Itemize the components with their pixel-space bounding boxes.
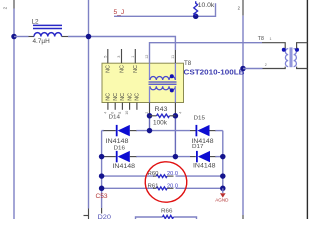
resistor R43 [157, 114, 170, 117]
pin lead L2 left [29, 36, 35, 38]
svg-text:2: 2 [3, 6, 8, 9]
wire diode row 2 [102, 156, 104, 158]
svg-text:12: 12 [145, 55, 149, 59]
svg-text:1: 1 [270, 37, 272, 41]
pin stub left bus bottom [101, 208, 103, 214]
svg-text:NC: NC [106, 65, 112, 73]
svg-text:D17: D17 [192, 144, 204, 150]
svg-text:L2: L2 [32, 19, 40, 26]
wire left bus [101, 131, 103, 208]
svg-text:4: 4 [178, 112, 182, 114]
junction left bus row 2 [99, 154, 105, 160]
svg-text:IN4148: IN4148 [113, 164, 136, 170]
svg-text:NC: NC [106, 93, 112, 101]
junction left bus R60 [99, 173, 105, 179]
junction R43 right [173, 113, 179, 119]
pin 5 stub [107, 49, 109, 63]
resistor R66 [163, 215, 174, 218]
svg-text:D20: D20 [98, 214, 112, 219]
junction mid row 2 [173, 154, 179, 160]
svg-text:NC: NC [113, 93, 119, 101]
pin stub left bus top [13, 0, 15, 9]
transformer core lines inside T8 [149, 81, 177, 83]
svg-text:100k: 100k [153, 120, 168, 127]
junction at L2 row left [11, 34, 17, 40]
wire L2 row [14, 36, 29, 38]
pin lead T6 top left [262, 43, 285, 49]
wire T6 bottom left [243, 68, 263, 70]
junction left bus R61 [99, 186, 105, 192]
svg-text:NC: NC [119, 65, 125, 73]
NC pin stubs bottom [107, 103, 109, 110]
junction at (88.5,36.5) [86, 34, 92, 40]
transformer T6 right winding [294, 49, 297, 67]
pin tick mid bus bottom [84, 215, 89, 217]
pin lead L2 right [62, 36, 68, 38]
svg-text:10.0k: 10.0k [198, 2, 215, 9]
svg-text:11: 11 [171, 55, 175, 59]
wire R60 row [102, 175, 154, 177]
junction at resistor bottom [193, 14, 199, 20]
svg-text:20.0: 20.0 [167, 171, 178, 177]
svg-text:R43: R43 [155, 106, 169, 113]
diode D17 [196, 151, 198, 162]
transformer T6 core lines [289, 47, 291, 67]
inductor L2 core lines [33, 24, 62, 26]
ground AGND [222, 188, 224, 193]
svg-text:C53: C53 [96, 193, 108, 200]
svg-text:NC: NC [120, 93, 126, 101]
junction T6 bottom left [240, 66, 246, 72]
svg-text:5: 5 [103, 56, 107, 58]
wire L2 row to pin 11 corner [68, 37, 175, 51]
diode D15 [196, 125, 198, 136]
wire diode row 1 [102, 130, 104, 132]
wire R66 row [136, 217, 163, 219]
inductor L2 [34, 33, 62, 37]
svg-text:R60: R60 [148, 171, 159, 177]
junction right bus R61 [220, 186, 226, 192]
resistor (partial, off-sheet top) [194, 1, 198, 16]
svg-text:IN4148: IN4148 [193, 164, 216, 170]
transformer T6 left winding [285, 49, 288, 67]
polarity dot bottom winding [170, 88, 174, 92]
transformer winding (top) inside T8 [149, 63, 151, 80]
wire right long vertical [242, 16, 244, 215]
junction diode row 1 [147, 128, 153, 134]
wire mid vertical bus [88, 0, 90, 209]
svg-text:NC: NC [133, 65, 139, 73]
wire secondary left column down to diode row [149, 103, 151, 116]
polarity dot T6 right [295, 48, 299, 52]
svg-text:D16: D16 [114, 145, 126, 151]
svg-text:CST2010-100LB: CST2010-100LB [184, 68, 245, 77]
junction right bus R60 [220, 173, 226, 179]
svg-text:R61: R61 [148, 183, 159, 189]
svg-text:20.0: 20.0 [167, 183, 178, 189]
wire left vertical bus [13, 9, 15, 220]
pin 11 stub [174, 50, 176, 63]
pin 3 stub [121, 49, 123, 63]
svg-text:AGND: AGND [215, 198, 229, 203]
polarity dot top winding [170, 74, 174, 78]
wire right bus [222, 131, 224, 192]
junction R43 left [147, 113, 153, 119]
wire secondary right column down to diode row 2 [174, 103, 176, 116]
svg-text:T8: T8 [258, 36, 264, 42]
pin lead T6 bottom left [263, 67, 286, 69]
svg-text:4: 4 [103, 112, 107, 114]
pin lead T6 bottom right [297, 67, 308, 69]
svg-text:D14: D14 [109, 114, 121, 120]
svg-text:D15: D15 [194, 115, 206, 121]
pin stub mid bus bottom [88, 209, 90, 220]
diode D14 [116, 125, 118, 136]
svg-text:R66: R66 [161, 208, 173, 214]
resistor R43 leads [150, 115, 157, 117]
junction right bus row 2 [220, 154, 226, 160]
pin stub bottom (off-sheet part below) [242, 215, 244, 219]
svg-text:10: 10 [125, 111, 129, 115]
pin 12 wire and wire to T6 primary [150, 43, 263, 64]
svg-text:3: 3 [117, 56, 121, 58]
svg-text:2: 2 [238, 6, 241, 11]
svg-text:5_J: 5_J [114, 9, 125, 16]
svg-text:1: 1 [131, 56, 135, 58]
pin stub top right (pin 2 of off-sheet part) [242, 0, 244, 16]
IC T8 body CST2010-100LB [102, 63, 184, 102]
pin lead T6 top right [297, 43, 308, 49]
wire R61 row [102, 187, 154, 189]
svg-text:2: 2 [265, 63, 267, 67]
resistor R61 [156, 187, 167, 190]
schematic frame border (right edge) [306, 0, 308, 219]
pin 1 stub [134, 49, 136, 63]
svg-text:4.7µH: 4.7µH [33, 38, 51, 45]
svg-text:IN4148: IN4148 [106, 139, 130, 145]
svg-text:T8: T8 [184, 60, 192, 67]
polarity dot T6 left [282, 48, 286, 52]
annotation red ellipse [144, 160, 188, 203]
wire net 5_J [114, 3, 216, 16]
transformer winding (bottom) inside T8 [150, 86, 175, 90]
diode D16 [116, 151, 118, 162]
svg-text:NC: NC [135, 93, 141, 101]
resistor R60 [156, 175, 167, 178]
svg-text:NC: NC [127, 93, 133, 101]
